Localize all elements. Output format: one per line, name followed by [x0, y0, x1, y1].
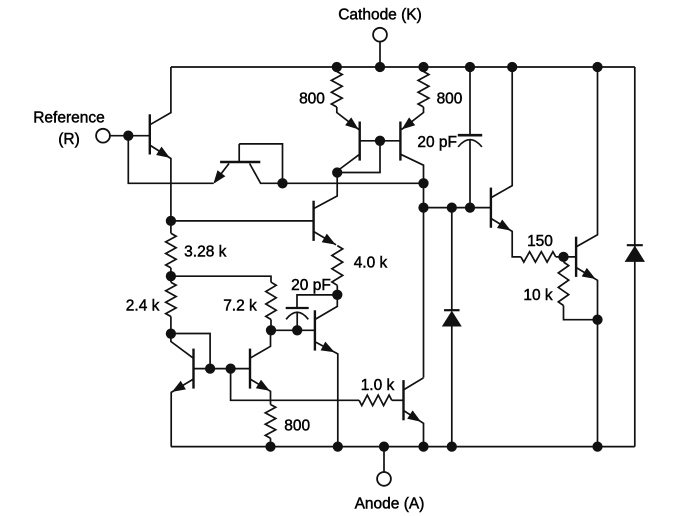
node Q6 emitter rail junction: [333, 441, 343, 451]
node cathode junction on rail: [375, 62, 385, 72]
wire Q4 emitter: [314, 232, 336, 245]
svg-text:150: 150: [527, 233, 553, 250]
arrow Q7 emitter: [256, 380, 270, 391]
wire Q10 emitter: [576, 268, 597, 447]
wire Q4 base from 3.28k node: [171, 220, 314, 222]
wire top rail (cathode bus): [171, 66, 635, 68]
capacitor 20 pF (upper) top plate: [458, 134, 482, 137]
wire 800-right to Q3b emitter: [401, 107, 423, 130]
node D1 rail junction: [447, 441, 457, 451]
node base net junction B: [225, 363, 235, 373]
wire right bus (cathode to anode, far right): [634, 67, 636, 447]
transistor Q8 base bar: [402, 380, 404, 420]
wire bottom rail (anode bus): [171, 446, 635, 448]
transistor Q3a base bar: [359, 122, 361, 161]
svg-text:2.4 k: 2.4 k: [126, 298, 160, 315]
arrow Q10 emitter: [582, 268, 596, 279]
wire Q3a collector: [337, 154, 360, 171]
wire mid rail (Q2 to Q3b collector): [283, 182, 424, 184]
wire 800-left to Q3a emitter: [337, 107, 359, 130]
transistor Q10 base bar: [575, 237, 577, 277]
svg-text:Reference: Reference: [33, 110, 105, 127]
wire D1 lower lead: [451, 327, 453, 447]
wire reference lead: [110, 135, 150, 137]
arrow Q2 left lead: [213, 170, 225, 184]
wire 3.28k top lead: [170, 221, 172, 233]
arrow Q4 emitter: [322, 234, 336, 245]
svg-text:4.0 k: 4.0 k: [354, 255, 388, 272]
svg-text:Anode (A): Anode (A): [355, 496, 425, 513]
node Q10 collector rail junction: [592, 62, 602, 72]
svg-text:(R): (R): [58, 131, 80, 148]
wire Q1 emitter: [150, 145, 171, 221]
node reference input junction: [123, 131, 133, 141]
node 800-left top junction: [332, 62, 342, 72]
wire Q2 base stub: [238, 144, 240, 162]
node cap-net junction: [292, 325, 302, 335]
wire Q5 base tie: [194, 368, 251, 370]
node 7.2k bottom junction: [266, 325, 276, 335]
wire Q2 left lead: [215, 164, 230, 183]
wire Q10 collector to rail: [576, 67, 597, 247]
wire Q8 emitter: [404, 411, 424, 447]
arrow Q3a emitter: [345, 117, 359, 129]
node anode junction on rail: [379, 441, 389, 451]
svg-text:800: 800: [299, 91, 325, 108]
capacitor 20 pF (lower) curved plate: [286, 312, 308, 319]
wire Q6 collector: [315, 295, 337, 320]
wire 7.2k top feed: [171, 276, 271, 282]
node cap-top lower junction: [465, 202, 475, 212]
resistor 3.28 k: [166, 233, 176, 268]
wire Q9 emitter to 150: [491, 218, 521, 257]
transistor Q9 base bar: [490, 188, 492, 228]
wire Q1 collector to top rail: [150, 67, 171, 125]
node base net junction A: [205, 363, 215, 373]
transistor Q1 base bar: [149, 114, 151, 154]
resistor 4.0 k: [332, 246, 343, 286]
node D1 top junction: [447, 202, 457, 212]
wire Q2 base-collector loop: [239, 144, 282, 183]
node mid rail right junction: [418, 178, 428, 188]
node 4.0k bottom junction: [332, 290, 342, 300]
wire Q5 collector: [171, 379, 193, 447]
wire base tie down to collector node: [337, 141, 380, 173]
terminal anode circle: [377, 472, 391, 486]
resistor 1.0 k: [359, 395, 392, 405]
node 2.4k bottom junction: [166, 329, 176, 339]
wire Q6 emitter: [315, 342, 338, 447]
transistor Q4 base bar: [312, 201, 314, 241]
transistor Q2 base bar (horizontal): [220, 161, 260, 163]
node 3.28k top junction: [166, 216, 176, 226]
wire base net of Q6: [271, 329, 315, 331]
wire 3.28k bottom lead: [170, 268, 172, 276]
resistor 10 k: [558, 262, 568, 306]
terminal cathode circle: [373, 28, 387, 42]
node 150-10k junction: [558, 252, 568, 262]
node 800-right top junction: [418, 62, 428, 72]
svg-text:800: 800: [437, 91, 463, 108]
wire anode stub: [383, 447, 385, 472]
arrow Q5 collector lead: [172, 381, 186, 392]
wire 800-bottom lead: [270, 438, 272, 446]
node 10k-emitter junction: [592, 315, 602, 325]
wire Q7 emitter: [250, 379, 271, 405]
wire Q7 collector: [250, 330, 271, 358]
svg-text:3.28 k: 3.28 k: [184, 244, 226, 261]
diode D2: [627, 244, 643, 246]
svg-text:800: 800: [284, 418, 310, 435]
diode D1: [444, 309, 460, 311]
wire 2.4k top lead: [170, 276, 172, 282]
svg-text:7.2 k: 7.2 k: [223, 298, 257, 315]
node Q2 collector junction: [277, 178, 287, 188]
transistor Q6 base bar: [314, 310, 316, 350]
wire 1.0k to Q8 base: [392, 399, 404, 401]
arrow Q6 emitter: [321, 342, 335, 353]
arrow Q3b emitter: [402, 117, 416, 129]
svg-text:10 k: 10 k: [523, 287, 553, 304]
transistor Q7 base bar: [249, 349, 251, 389]
transistor Q3b base bar: [399, 122, 401, 161]
node Q10 emitter rail junction: [592, 441, 602, 451]
wire base net down to 1.0k rail: [231, 369, 360, 401]
arrow Q9 emitter: [497, 220, 511, 231]
wire 7.2k bottom lead: [270, 320, 272, 331]
arrow Q1 emitter: [156, 147, 170, 158]
node Q9 collector rail junction: [507, 62, 517, 72]
arrow Q8 emitter: [407, 410, 421, 421]
transistor Q5 base bar: [192, 349, 194, 389]
wire D1 upper lead: [451, 208, 453, 311]
wire 4.0k lower lead: [336, 285, 338, 295]
wire Q9 collector to rail: [491, 67, 512, 198]
capacitor 20 pF (lower) top plate: [286, 307, 309, 309]
wire Q2 right lead: [250, 164, 283, 184]
wire 4.0k node to cap: [297, 295, 337, 308]
wire Q3a collector node to Q4 collector: [314, 173, 338, 209]
resistor 800 (right): [418, 72, 429, 108]
resistor 2.4 k: [166, 282, 176, 316]
node 800-bottom rail junction: [265, 441, 275, 451]
node base tie junction: [375, 136, 385, 146]
terminal reference circle: [96, 129, 110, 143]
wire 150 to Q10 base: [556, 256, 576, 258]
wire cap lower lead: [296, 312, 298, 330]
node collector net junction: [418, 202, 428, 212]
svg-text:20 pF: 20 pF: [417, 134, 457, 151]
wire 10k bottom lead: [564, 306, 598, 320]
wire 2.4k bottom lead: [170, 317, 172, 334]
wire cathode stub: [379, 42, 381, 67]
capacitor 20 pF (upper) curved plate: [458, 140, 482, 147]
svg-text:20 pF: 20 pF: [291, 277, 331, 294]
wire reference node down-left: [128, 136, 213, 184]
wire collector net to Q9 base: [424, 207, 491, 209]
resistor 150: [521, 252, 556, 262]
wire 2.4k node to base net: [171, 334, 210, 369]
svg-text:1.0 k: 1.0 k: [361, 377, 395, 394]
wire Q3b collector: [400, 154, 423, 377]
node Q8 emitter rail junction: [418, 441, 428, 451]
node cap-top upper junction: [465, 62, 475, 72]
resistor 800 (bottom): [265, 405, 275, 439]
wire cap 20pF lower lead: [469, 140, 471, 208]
resistor 800 (left): [331, 72, 342, 108]
node Q3a collector junction: [332, 167, 342, 177]
wire cap 20pF upper lead: [469, 67, 471, 135]
wire Q3a-Q3b base tie: [360, 140, 401, 142]
node 2.4k top junction: [166, 271, 176, 281]
wire Q5 emitter from 2.4k node: [171, 334, 194, 359]
wire Q8 collector: [404, 378, 424, 390]
resistor 7.2 k: [266, 282, 276, 319]
svg-text:Cathode (K): Cathode (K): [338, 6, 422, 23]
